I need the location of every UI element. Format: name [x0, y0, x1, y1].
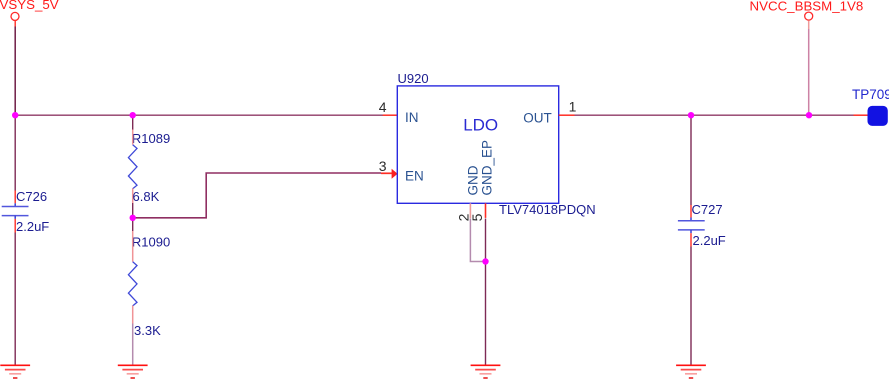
IC U920 (LDO regulator) body — [397, 86, 558, 203]
capacitor C727 pin bottom (red) — [690, 233, 692, 246]
power symbol VSYS_5V circle — [11, 12, 19, 20]
svg-text:GND_EP: GND_EP — [480, 140, 495, 196]
svg-text:4: 4 — [379, 99, 387, 115]
resistor R1090 pin top (salmon) — [132, 231, 134, 262]
svg-text:GND: GND — [466, 165, 481, 195]
node junction at NVCC — [806, 112, 812, 118]
resistor R1089 pin bottom (salmon) — [132, 188, 134, 203]
wire GND net to ground — [485, 262, 487, 365]
capacitor C727 plates — [678, 221, 705, 230]
pin 3 stub (red) — [381, 172, 392, 174]
svg-text:VSYS_5V: VSYS_5V — [0, 0, 59, 12]
wire C726 bottom to ground — [14, 233, 16, 365]
svg-text:R1089: R1089 — [132, 131, 170, 146]
power symbol NVCC circle — [805, 12, 813, 20]
svg-text:TP709: TP709 — [852, 87, 889, 102]
node junction at C727 — [688, 112, 694, 118]
svg-text:TLV74018PDQN: TLV74018PDQN — [499, 202, 596, 217]
node junction at VSYS vertical — [12, 112, 18, 118]
capacitor C726 lead top (blue) — [14, 203, 16, 206]
ground (left, C726) — [0, 365, 30, 378]
wire NVCC vertical lower — [808, 29, 810, 115]
node junction at R1089 top — [130, 112, 136, 118]
wire R1090 bottom to ground (plum) — [132, 324, 134, 365]
ground (C727) — [676, 365, 706, 378]
wire main horizontal VSYS_5V to IN — [15, 114, 383, 116]
svg-text:6.8K: 6.8K — [133, 189, 160, 204]
pin 4 stub (red) — [383, 114, 397, 116]
capacitor C727 pin top (red) — [690, 205, 692, 218]
ground (R1090) — [118, 365, 148, 378]
capacitor C727 lead bottom (blue) — [690, 230, 692, 233]
wire C726 top — [14, 115, 16, 190]
svg-text:NVCC_BBSM_1V8: NVCC_BBSM_1V8 — [750, 0, 864, 14]
node junction GND net — [482, 258, 488, 264]
pin 5 stub (red) — [485, 203, 487, 218]
svg-text:1: 1 — [569, 98, 577, 114]
wire C727 bottom to ground — [690, 247, 692, 365]
svg-text:3: 3 — [379, 158, 387, 174]
pin 2 stub (red) — [469, 203, 471, 218]
pin 1 stub (red) — [559, 114, 575, 116]
svg-text:C727: C727 — [692, 202, 723, 217]
svg-text:2.2uF: 2.2uF — [693, 233, 726, 248]
wire pin5 down — [485, 219, 487, 262]
svg-text:2.2uF: 2.2uF — [16, 219, 49, 234]
svg-text:5: 5 — [469, 213, 485, 221]
svg-text:OUT: OUT — [523, 110, 552, 125]
svg-text:C726: C726 — [16, 189, 47, 204]
capacitor C726 plates — [2, 207, 29, 216]
resistor R1090 pin bottom (salmon) — [132, 306, 134, 324]
wire R1089 bottom to node — [132, 203, 134, 218]
wire NVCC vertical (pink) — [808, 21, 810, 29]
svg-text:3.3K: 3.3K — [134, 323, 161, 338]
power pin stub VSYS (red) — [14, 20, 16, 26]
wire VSYS_5V vertical — [14, 27, 16, 116]
capacitor C726 lead bottom (blue) — [14, 216, 16, 219]
svg-text:EN: EN — [405, 169, 424, 184]
test point TP709 pad — [868, 106, 888, 126]
resistor R1089 pin top (salmon) — [132, 130, 134, 145]
capacitor C726 pin bottom (red) — [14, 219, 16, 233]
resistor R1090 zigzag — [128, 262, 137, 306]
pin 3 arrow — [392, 169, 398, 179]
test point TP709 stub (red) — [854, 114, 868, 116]
resistor R1089 zigzag — [128, 145, 137, 189]
wire EN net: right, up, right — [133, 173, 381, 218]
svg-text:LDO: LDO — [463, 116, 498, 135]
capacitor C727 lead top (blue) — [690, 218, 692, 221]
wire OUT net horizontal — [575, 114, 854, 116]
svg-text:U920: U920 — [398, 71, 429, 86]
svg-text:R1090: R1090 — [132, 234, 170, 249]
capacitor C726 pin top (red) — [14, 191, 16, 204]
wire R1090 top — [132, 218, 134, 231]
ground (U920) — [471, 365, 501, 378]
wire R1089 top — [132, 115, 134, 130]
wire pin2 to node (plum) — [470, 219, 485, 262]
wire C727 top — [690, 115, 692, 205]
svg-text:IN: IN — [405, 110, 419, 125]
node junction R1089/R1090/EN — [130, 215, 136, 221]
